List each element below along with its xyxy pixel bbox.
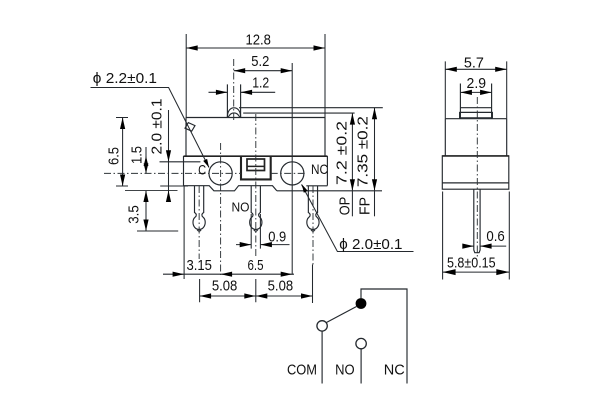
dimension line OP 7.2: [351, 113, 353, 216]
arrowhead 6.5 bottom left: [221, 272, 233, 277]
arrowhead 12.8 left: [186, 45, 198, 50]
side view plunger sides: [460, 84, 491, 119]
side view base plate line: [442, 182, 509, 184]
arrowhead side 5.7 right: [495, 67, 507, 72]
circuit NC wire: [361, 289, 407, 384]
centerline side view vertical: [476, 97, 478, 258]
side dimension line 5.8: [443, 271, 510, 273]
extension lines 5.08: [200, 265, 313, 304]
side dimension line 2.9: [460, 91, 491, 93]
circuit COM lead wire: [321, 331, 323, 383]
dimension line 1.2: [209, 91, 276, 93]
svg-text:ϕ 2.2±0.1: ϕ 2.2±0.1: [93, 70, 157, 87]
extension line pin tip level: [137, 230, 178, 232]
arrowhead FP 7.35 bottom: [372, 179, 377, 191]
front view body top edge: [186, 117, 325, 119]
side extension lines 5.7: [445, 61, 506, 118]
side view body sides: [445, 119, 506, 156]
svg-text:NO: NO: [232, 199, 250, 214]
side extension lines 5.8: [443, 192, 510, 280]
svg-text:7.35 ±0.2: 7.35 ±0.2: [354, 116, 371, 187]
arrowhead 5.08 mid left: [256, 293, 267, 298]
arrowhead FP 7.35 top: [372, 108, 377, 120]
centerline button vertical: [233, 59, 235, 120]
extension line 5.2 right / NC hole vertical: [291, 63, 293, 275]
extension line wing bottom: [160, 185, 188, 187]
arrowhead leader phi2.0: [302, 184, 308, 193]
datum line right: [277, 190, 382, 192]
svg-text:12.8: 12.8: [245, 32, 271, 49]
arrowhead 5.2 left: [234, 68, 246, 73]
arrowhead 5.08 left: [200, 293, 212, 298]
FP level line: [239, 107, 383, 109]
circuit lever: [326, 307, 356, 323]
arrowhead 2.0 top outside: [166, 150, 171, 162]
arrowhead 1.2 left outside: [216, 90, 228, 95]
contact box: [247, 159, 265, 171]
arrowhead 5.08 mid right: [244, 293, 256, 298]
front view wing right edge: [326, 156, 328, 186]
extension line seating gray: [125, 190, 178, 192]
side view plunger collar: [460, 112, 493, 117]
arrowhead side 5.8 right: [496, 269, 509, 275]
arrowhead side 5.8 left: [443, 269, 456, 275]
dimension line 0.9: [236, 244, 290, 246]
dimension line 5.08 pair: [200, 295, 313, 297]
svg-text:2.0 ±0.1: 2.0 ±0.1: [149, 99, 166, 155]
arrowhead 5.08 right: [301, 293, 313, 298]
dimension line 5.2: [234, 70, 293, 72]
extension line 12.8 left: [185, 34, 187, 118]
side view pin: [474, 189, 480, 253]
centerline holes horizontal: [104, 172, 307, 174]
svg-text:5.08: 5.08: [268, 278, 294, 295]
circuit NO lead wire: [360, 349, 362, 384]
arrowhead 1.2 right outside: [241, 90, 253, 95]
front view body left edge: [185, 118, 187, 157]
arrowhead 6.5 left bottom: [120, 175, 125, 187]
svg-text:FP: FP: [357, 197, 374, 215]
OP level line: [243, 112, 354, 114]
svg-text:2.9: 2.9: [467, 75, 487, 92]
pin NC: [307, 186, 319, 230]
arrowhead OP 7.2 top: [350, 113, 355, 125]
dimension line FP 7.35: [374, 108, 376, 217]
svg-text:OP: OP: [336, 197, 353, 215]
contact chamber notch: [241, 157, 271, 180]
button side lines / 1.2 extension lines: [227, 84, 240, 117]
mounting hole C (phi 2.2): [209, 162, 232, 185]
arrowhead 6.5 left top: [120, 118, 125, 130]
svg-text:5.2: 5.2: [251, 53, 269, 70]
arrowhead leader phi2.2: [203, 159, 209, 168]
mounting hole NC side (phi 2.0): [281, 162, 304, 185]
centerline pin NC vertical: [312, 186, 314, 265]
svg-text:0.9: 0.9: [268, 229, 286, 246]
extension lines 6.5 left: [116, 118, 128, 187]
front view body right edge: [324, 118, 326, 157]
arrowhead 12.8 right: [314, 45, 326, 50]
svg-text:5.7: 5.7: [464, 55, 484, 72]
svg-text:NO: NO: [335, 362, 355, 379]
side view plunger OP line: [460, 111, 491, 113]
side view plunger top line: [460, 107, 491, 109]
arrowhead OP 7.2 bottom: [350, 179, 355, 191]
side view body top edge: [445, 118, 506, 120]
pin NO: [250, 186, 262, 230]
arrowhead 5.2 right: [281, 68, 293, 73]
svg-text:6.5: 6.5: [248, 257, 264, 274]
button inner crescent: [228, 113, 240, 117]
side dimension line 5.7: [445, 68, 506, 70]
button dome (free position): [227, 108, 240, 118]
svg-text:3.5: 3.5: [126, 205, 143, 224]
svg-text:0.6: 0.6: [486, 228, 504, 245]
arrowhead 6.5 bottom right: [281, 272, 293, 277]
arrowhead 1.5 bottom: [144, 163, 149, 173]
arrowhead 1.5 top: [144, 156, 149, 166]
arrowhead 3.5 top: [143, 191, 148, 203]
svg-text:C: C: [198, 161, 206, 177]
extension lines 0.9 pin NO sides: [251, 214, 260, 249]
arrowhead side 2.9 left: [460, 90, 472, 95]
dimension line 3.15 and 6.5: [163, 273, 294, 275]
side view wing top bold line: [442, 155, 509, 157]
arrowhead 3.5 bottom: [143, 220, 148, 232]
front view wing top edge: [184, 155, 328, 157]
arrowhead 0.9 right outside: [260, 242, 272, 247]
side view wing outline: [442, 156, 509, 189]
extension line 12.8 right: [324, 34, 326, 118]
dimension line 2.0: [168, 110, 170, 199]
extension line body left bottom: [183, 186, 185, 279]
centerline hole C vertical: [220, 143, 222, 275]
svg-text:1.2: 1.2: [252, 75, 269, 92]
pin C tip: [197, 230, 201, 231]
svg-text:3.15: 3.15: [186, 257, 212, 274]
arrowhead 2.0 bottom outside: [166, 191, 171, 203]
svg-text:COM: COM: [287, 362, 317, 379]
centerline pin C vertical: [198, 186, 200, 259]
circuit NO terminal circle: [356, 338, 366, 348]
arrowhead side 0.6 left outside: [462, 244, 474, 249]
svg-text:ϕ 2.0±0.1: ϕ 2.0±0.1: [339, 236, 402, 253]
arrowhead 3.15 left outside: [173, 272, 185, 277]
actuator clip top-left: [185, 123, 195, 132]
pin C: [193, 186, 205, 230]
arrowhead side 0.6 right outside: [480, 244, 492, 249]
svg-text:7.2 ±0.2: 7.2 ±0.2: [334, 121, 351, 185]
dimension line 12.8: [186, 47, 325, 49]
extension line hole top: [160, 161, 201, 163]
pin NO tip: [254, 230, 258, 231]
front view wing left edge: [183, 156, 185, 186]
svg-text:6.5: 6.5: [106, 147, 123, 165]
leader phi2.2: [91, 88, 210, 168]
centerlines: [104, 59, 477, 275]
svg-text:NC: NC: [311, 161, 328, 177]
arrowhead side 2.9 right: [480, 90, 492, 95]
dimension line 6.5 left: [122, 118, 124, 187]
arrowhead 0.9 left outside: [240, 242, 252, 247]
arrowhead side 5.7 left: [445, 67, 457, 72]
svg-text:NC: NC: [384, 362, 405, 379]
centerline pin NO vertical: [255, 114, 257, 257]
circuit COM terminal circle: [317, 321, 327, 331]
front view bottom contour with bosses: [184, 186, 328, 191]
svg-text:5.8±0.15: 5.8±0.15: [447, 255, 496, 272]
side dimension line 0.6: [464, 245, 506, 247]
pin NC tip: [311, 230, 315, 231]
svg-text:5.08: 5.08: [212, 278, 238, 295]
dimension line 1.5: [145, 147, 147, 173]
dimension line 3.5: [145, 191, 147, 232]
svg-text:1.5: 1.5: [128, 146, 145, 164]
circuit NC contact dot: [356, 298, 367, 309]
contact box divider: [247, 165, 265, 167]
leader phi2.0: [302, 185, 414, 252]
